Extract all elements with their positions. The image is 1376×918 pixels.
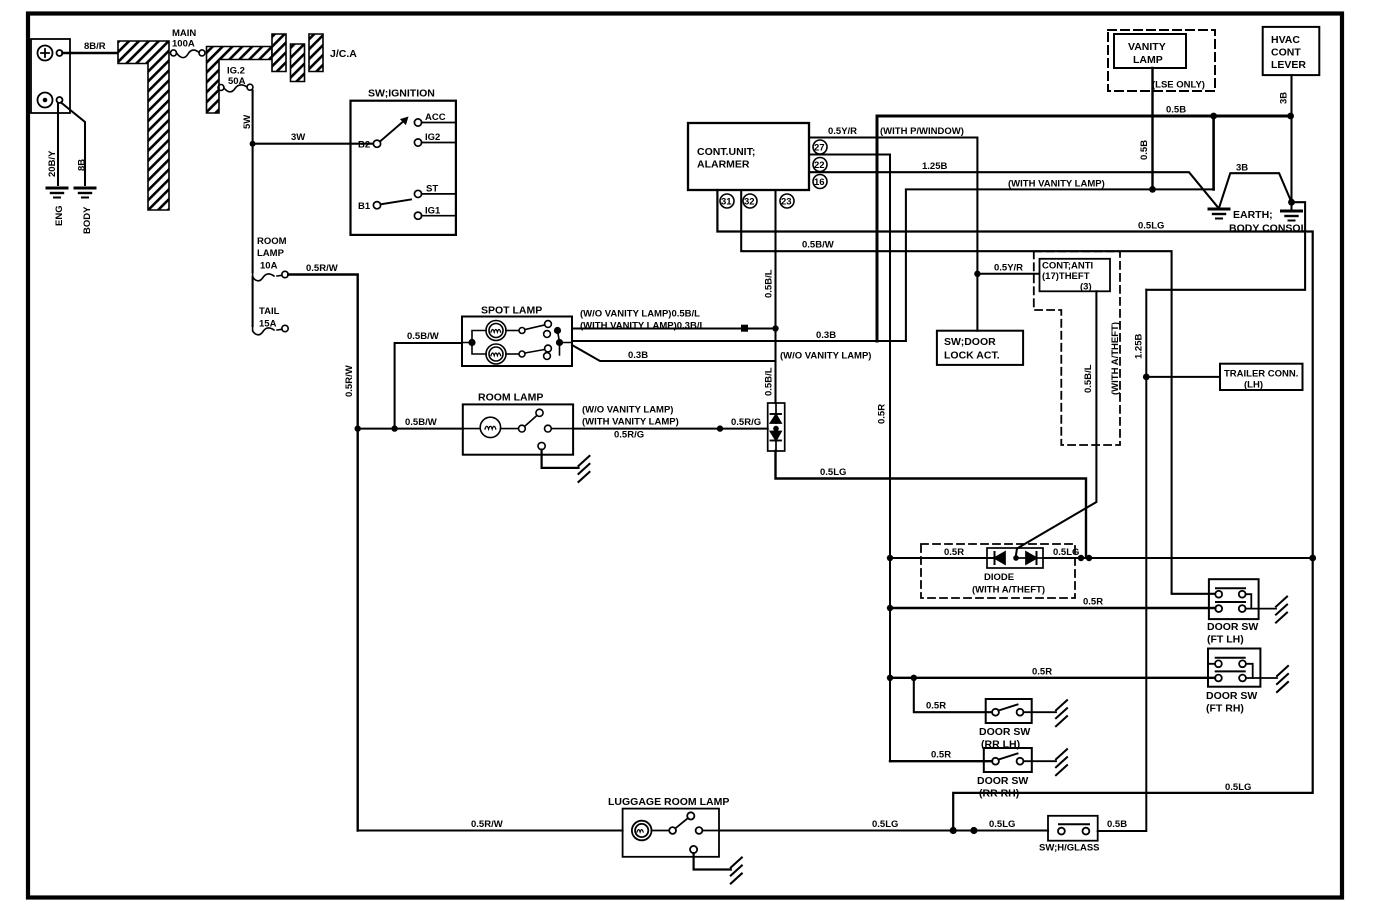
node trunk/room-lamp feed junction: [355, 425, 361, 431]
svg-text:ACC: ACC: [425, 112, 446, 123]
svg-text:8B: 8B: [77, 159, 88, 171]
svg-text:DOOR SW: DOOR SW: [977, 775, 1028, 787]
svg-text:BODY CONSOL: BODY CONSOL: [1229, 223, 1308, 235]
wire 0.5B/L riser (alarmer pin23 to diode): [774, 190, 776, 403]
svg-text:CONT;ANTI: CONT;ANTI: [1042, 261, 1093, 272]
ground EARTH right: [1282, 211, 1302, 221]
svg-text:0.5B/L: 0.5B/L: [764, 367, 775, 396]
svg-text:LOCK ACT.: LOCK ACT.: [944, 350, 1000, 362]
svg-text:0.5B: 0.5B: [1166, 105, 1186, 116]
svg-text:0.5R/G: 0.5R/G: [731, 417, 761, 428]
svg-text:IG.2: IG.2: [227, 66, 245, 77]
node 0.5R trunk tap at diode row: [887, 555, 893, 561]
wire 0.5R to ft lh: [890, 607, 1215, 609]
svg-text:0.5R: 0.5R: [944, 547, 964, 558]
svg-text:10A: 10A: [260, 261, 278, 272]
ground door sw rr lh: [1056, 700, 1067, 726]
wire 0.5R to rr rh: [890, 760, 992, 762]
wire 1.25B trunk down to h/glass: [1098, 290, 1147, 831]
node diode center / 0.5R-G tie: [773, 426, 779, 432]
node rr lh branch: [911, 675, 917, 681]
ground door sw ft rh: [1277, 666, 1288, 692]
wire 0.5LG diode output: [1043, 557, 1313, 559]
svg-text:CONT.UNIT;: CONT.UNIT;: [697, 146, 755, 158]
svg-text:LAMP: LAMP: [1133, 54, 1163, 66]
svg-text:0.3B: 0.3B: [628, 350, 648, 361]
svg-text:DOOR SW: DOOR SW: [1206, 690, 1257, 702]
ground door sw rr rh: [1056, 749, 1067, 775]
node 0.5B tie: [1210, 113, 1217, 120]
wire 0.5LG pin31 long run: [717, 190, 1312, 831]
wire 3B bridge earth to earth: [1219, 173, 1292, 208]
svg-text:0.5R/W: 0.5R/W: [471, 819, 503, 830]
wire pin22 to 0.5R trunk: [809, 155, 890, 762]
node square junction on top output: [741, 325, 748, 332]
switch SW;H/GLASS: [1048, 816, 1098, 841]
svg-text:23: 23: [781, 197, 792, 208]
ground ENG: [47, 188, 67, 198]
switch DOOR SW (FT LH): [1209, 579, 1276, 619]
svg-text:EARTH;: EARTH;: [1233, 209, 1273, 221]
node 0.5LG joins right trunk: [1309, 555, 1316, 562]
svg-text:(W/O VANITY LAMP): (W/O VANITY LAMP): [582, 405, 673, 416]
dashed option box (diode a/theft): [921, 544, 1075, 598]
diode unit (a/theft): [987, 548, 1043, 568]
switch DOOR SW (FT RH): [1208, 649, 1277, 687]
svg-text:(W/O VANITY LAMP)0.5B/L: (W/O VANITY LAMP)0.5B/L: [580, 309, 700, 320]
wire to trailer connector: [1146, 376, 1220, 378]
svg-text:3W: 3W: [291, 132, 305, 143]
svg-text:TRAILER CONN.: TRAILER CONN.: [1224, 369, 1298, 380]
pin 23 circle: [780, 194, 794, 208]
dashed option box (anti-theft): [1034, 251, 1120, 445]
switch DOOR SW (RR LH): [986, 699, 1056, 723]
node 0.5R trunk tap ft rh: [887, 675, 893, 681]
svg-text:0.5LG: 0.5LG: [820, 467, 846, 478]
svg-text:0.5Y/R: 0.5Y/R: [994, 263, 1023, 274]
svg-text:0.5LG: 0.5LG: [989, 819, 1015, 830]
svg-text:0.5LG: 0.5LG: [1053, 547, 1079, 558]
svg-text:16: 16: [814, 177, 825, 188]
pin 16 circle: [813, 175, 827, 189]
wire vanity tie to 0.5B: [1212, 116, 1215, 189]
wire (WITH VANITY LAMP) riser from 0.3B: [906, 189, 1214, 341]
svg-text:0.5Y/R: 0.5Y/R: [828, 126, 857, 137]
wire 0.5B/W pin32 to door sw FT LH: [741, 190, 1215, 594]
svg-text:MAIN: MAIN: [172, 28, 196, 39]
svg-text:B2: B2: [358, 140, 370, 151]
svg-text:0.3B: 0.3B: [816, 330, 836, 341]
svg-text:0.5R/G: 0.5R/G: [614, 430, 644, 441]
wire 0.5R to ft rh: [890, 677, 1215, 679]
wire 0.5B p/window riser: [877, 116, 1291, 341]
svg-text:0.5B/W: 0.5B/W: [405, 417, 437, 428]
svg-text:(FT RH): (FT RH): [1206, 703, 1244, 715]
svg-text:3B: 3B: [1279, 92, 1290, 104]
svg-text:B1: B1: [358, 201, 371, 212]
svg-text:DOOR SW: DOOR SW: [979, 726, 1030, 738]
ground door sw ft lh: [1276, 597, 1287, 623]
node 0.5B to hvac riser: [1287, 113, 1294, 120]
svg-text:IG2: IG2: [425, 132, 440, 143]
ground room lamp: [579, 456, 590, 482]
wire 0.5R to rr lh: [914, 678, 992, 712]
svg-text:0.5B/W: 0.5B/W: [802, 240, 834, 251]
svg-text:CONT: CONT: [1271, 47, 1301, 59]
wire spot lamp middle output 0.3B to vanity riser: [572, 340, 906, 342]
svg-text:8B/R: 8B/R: [84, 41, 106, 52]
svg-text:DOOR SW: DOOR SW: [1207, 621, 1258, 633]
svg-text:(LSE ONLY): (LSE ONLY): [1152, 80, 1205, 91]
svg-text:IG1: IG1: [425, 206, 441, 217]
pin 27 circle: [813, 140, 827, 154]
unit HVAC CONT LEVER: [1263, 27, 1320, 75]
svg-text:27: 27: [814, 143, 825, 154]
wire 0.5B/W feed to room lamp: [358, 428, 463, 430]
svg-text:3B: 3B: [1236, 163, 1248, 174]
wire battery + to busbar 8B/R: [63, 52, 119, 55]
wire 0.5LG from vanity diode bottom: [776, 451, 1087, 558]
svg-text:0.5R: 0.5R: [1032, 667, 1052, 678]
node diode center: [1013, 555, 1019, 561]
wire 0.5Y/R to anti-theft unit: [977, 273, 1039, 275]
busbar fusible-link block (left): [118, 41, 169, 210]
svg-text:(FT LH): (FT LH): [1207, 634, 1244, 646]
svg-text:(W/O VANITY LAMP): (W/O VANITY LAMP): [780, 351, 871, 362]
svg-text:LAMP: LAMP: [257, 248, 285, 259]
node 0.5LG ties: [950, 827, 957, 834]
svg-text:0.5B/W: 0.5B/W: [407, 331, 439, 342]
svg-text:HVAC: HVAC: [1271, 34, 1300, 46]
wire spot lamp top output 0.5B/L-0.3B/L: [572, 327, 776, 329]
svg-text:(WITH VANITY LAMP)0.3B/L: (WITH VANITY LAMP)0.3B/L: [580, 321, 705, 332]
svg-text:LEVER: LEVER: [1271, 59, 1306, 71]
node 3W tap: [250, 141, 256, 147]
fuse TAIL 15A: [252, 277, 254, 326]
connector TRAILER CONN.(LH): [1220, 364, 1303, 390]
node earth tie: [1288, 199, 1295, 206]
pin 22 circle: [813, 158, 827, 172]
junction connector J/C.A comb: [272, 34, 286, 72]
switch SW;DOOR LOCK ACT.: [937, 331, 1023, 365]
svg-text:BODY: BODY: [82, 206, 93, 234]
svg-text:(WITH VANITY LAMP): (WITH VANITY LAMP): [1008, 179, 1105, 190]
svg-text:(WITH A/THEFT): (WITH A/THEFT): [972, 585, 1045, 596]
pin 31 circle: [720, 194, 734, 208]
svg-text:5W: 5W: [242, 115, 253, 129]
wire 0.5B/W feed to spot lamp: [395, 343, 462, 429]
wire luggage lamp to ground: [694, 853, 731, 869]
wire 0.5Y/R pin27: [809, 138, 977, 331]
svg-text:SW;H/GLASS: SW;H/GLASS: [1039, 843, 1100, 854]
ground BODY: [75, 188, 95, 198]
node 0.5LG tie at riser: [1078, 555, 1084, 561]
node spot feed junction: [391, 425, 397, 431]
svg-text:TAIL: TAIL: [259, 306, 280, 317]
svg-text:J/C.A: J/C.A: [330, 48, 357, 60]
wire 0.5R/W into luggage lamp: [358, 829, 623, 831]
wire battery - to BODY ground 8B: [61, 103, 85, 186]
svg-text:ROOM LAMP: ROOM LAMP: [478, 392, 543, 404]
svg-text:SPOT LAMP: SPOT LAMP: [481, 305, 542, 317]
svg-text:0.5R: 0.5R: [1083, 597, 1103, 608]
node splice on 0.5R/G: [717, 425, 723, 431]
svg-text:ROOM: ROOM: [257, 236, 287, 247]
wire 0.5R/W from room-lamp fuse to trunk: [288, 275, 358, 831]
wire 1.25B pin16 to earth: [809, 172, 1219, 208]
node 0.5R trunk tap ft lh: [887, 605, 893, 611]
node trailer tap: [1143, 374, 1150, 381]
control unit CONT;ANTI(17)THEFT(3): [1040, 259, 1111, 292]
svg-text:DIODE: DIODE: [984, 572, 1014, 583]
wire 3B hvac to earth: [1290, 75, 1292, 209]
svg-text:(WITH A/THEFT): (WITH A/THEFT): [1110, 322, 1121, 395]
control unit CONT.UNIT;ALARMER: [688, 123, 809, 190]
svg-text:1.25B: 1.25B: [922, 161, 947, 172]
svg-text:(RR RH): (RR RH): [979, 788, 1019, 800]
node vanity drop junction: [1149, 186, 1156, 193]
svg-text:0.5R: 0.5R: [926, 701, 946, 712]
wire room lamp switch to ground: [542, 450, 579, 468]
svg-text:0.5LG: 0.5LG: [1138, 221, 1164, 232]
wire spot lamp lower output 0.3B: [572, 345, 776, 361]
svg-text:0.5B/L: 0.5B/L: [1083, 364, 1094, 393]
svg-text:(3): (3): [1080, 282, 1092, 293]
svg-text:SW;IGNITION: SW;IGNITION: [368, 88, 435, 100]
svg-text:0.5R: 0.5R: [931, 750, 951, 761]
svg-text:0.5B: 0.5B: [1107, 819, 1127, 830]
svg-text:0.5R/W: 0.5R/W: [344, 365, 355, 397]
svg-text:0.5R: 0.5R: [877, 404, 888, 424]
svg-text:(17)THEFT: (17)THEFT: [1042, 271, 1090, 282]
wire earth to 1.25B trunk: [1146, 202, 1305, 290]
svg-text:ST: ST: [426, 184, 438, 195]
node 0.5Y/R branch: [974, 271, 980, 277]
svg-text:(WITH VANITY LAMP): (WITH VANITY LAMP): [582, 417, 679, 428]
svg-text:0.5B: 0.5B: [1139, 140, 1150, 160]
svg-text:31: 31: [721, 197, 732, 208]
node top output joins 0.5B/L vertical: [772, 325, 778, 331]
svg-text:LUGGAGE ROOM LAMP: LUGGAGE ROOM LAMP: [608, 796, 729, 808]
busbar block 2 (IG.2 feed): [207, 47, 273, 114]
switch DOOR SW (RR RH): [984, 748, 1056, 772]
ground EARTH left: [1209, 209, 1229, 219]
ground luggage lamp: [731, 858, 742, 884]
svg-text:ALARMER: ALARMER: [697, 159, 750, 171]
pin 32 circle: [743, 194, 757, 208]
battery: [31, 39, 70, 113]
lamp VANITY LAMP (dashed LSE option): [1108, 30, 1215, 91]
svg-text:22: 22: [814, 160, 825, 171]
wire 0.5LG luggage lamp to h/glass switch: [719, 829, 1048, 831]
svg-text:ENG: ENG: [54, 205, 65, 226]
diode unit (vanity): [768, 403, 785, 451]
svg-text:1.25B: 1.25B: [1134, 334, 1145, 359]
svg-text:0.5B/L: 0.5B/L: [764, 269, 775, 298]
svg-text:20B/Y: 20B/Y: [47, 150, 58, 177]
svg-text:0.5LG: 0.5LG: [1225, 782, 1251, 793]
svg-text:0.5R/W: 0.5R/W: [306, 263, 338, 274]
wire 0.5B/L theft unit to diode: [1016, 291, 1096, 555]
wire 3W to ignition switch: [253, 143, 373, 145]
svg-text:SW;DOOR: SW;DOOR: [944, 336, 996, 348]
svg-text:VANITY: VANITY: [1128, 41, 1166, 53]
svg-text:100A: 100A: [172, 39, 195, 50]
wire 5W vertical trunk: [252, 91, 254, 273]
wire battery - to ENG ground 20B/Y: [57, 104, 59, 186]
wire 0.5R to diode: [890, 557, 987, 559]
wire 0.5B vanity lamp drop: [1151, 68, 1153, 189]
wire 0.5R/G room lamp to vanity diode: [573, 428, 768, 430]
svg-text:0.5LG: 0.5LG: [872, 819, 898, 830]
svg-text:32: 32: [744, 197, 755, 208]
svg-text:(LH): (LH): [1244, 380, 1263, 391]
svg-text:(WITH P/WINDOW): (WITH P/WINDOW): [880, 126, 964, 137]
